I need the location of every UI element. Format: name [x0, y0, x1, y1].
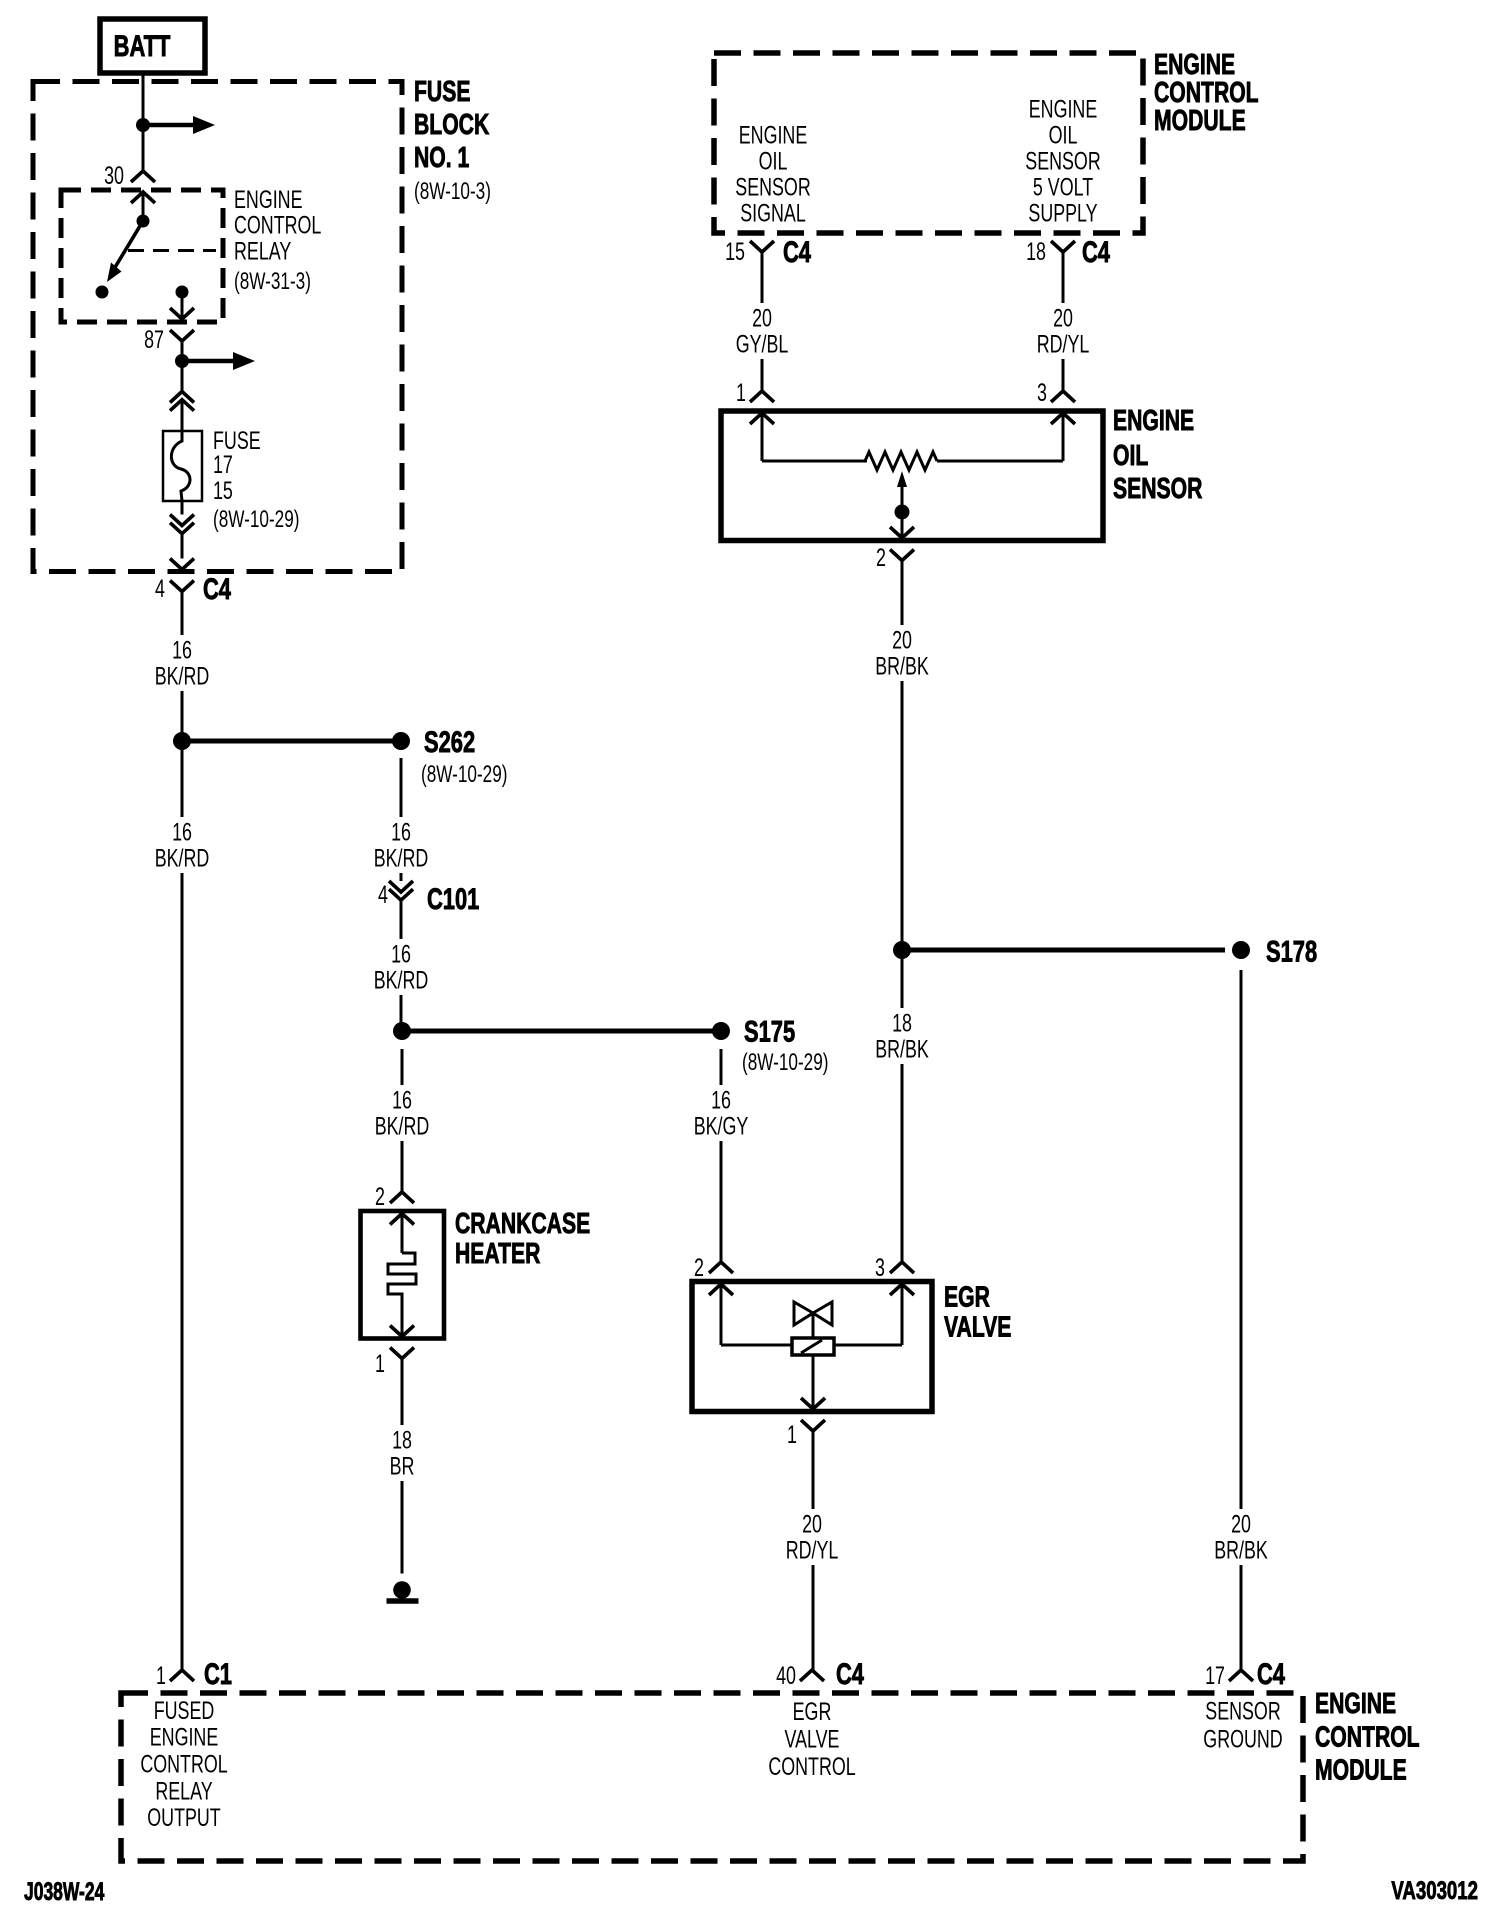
EGR valve symbol [794, 1302, 832, 1339]
svg-text:VALVE: VALVE [944, 1311, 1011, 1343]
relay contact (NC) [96, 286, 109, 299]
svg-text:BR/BK: BR/BK [1214, 1536, 1268, 1565]
svg-text:87: 87 [144, 325, 164, 354]
wire label 16 BK/RD (S262 branch) [359, 817, 443, 873]
svg-text:1: 1 [787, 1420, 797, 1449]
svg-text:4: 4 [378, 880, 388, 909]
EGR valve box [692, 1282, 932, 1412]
svg-text:S262: S262 [424, 725, 475, 759]
svg-text:SUPPLY: SUPPLY [1028, 199, 1098, 228]
pin function: EGR valve control [768, 1697, 855, 1781]
svg-text:RD/YL: RD/YL [786, 1536, 839, 1565]
svg-text:OUTPUT: OUTPUT [147, 1803, 220, 1832]
relay switch pole [137, 215, 150, 228]
svg-text:C1: C1 [204, 1657, 232, 1691]
svg-text:20: 20 [892, 626, 912, 655]
connector pin 30 [104, 161, 155, 221]
svg-text:30: 30 [104, 161, 124, 190]
wire trunk to C1 [181, 741, 184, 1670]
wire 20 RD/YL to C4 pin 40 [812, 1431, 815, 1670]
svg-text:ENGINE: ENGINE [1029, 95, 1098, 124]
svg-text:18: 18 [1026, 237, 1046, 266]
svg-text:16: 16 [711, 1086, 731, 1115]
svg-text:VALVE: VALVE [785, 1724, 840, 1753]
svg-text:15: 15 [213, 476, 233, 505]
svg-text:S175: S175 [744, 1014, 795, 1048]
wire label 16 BK/RD (trunk lower) [140, 817, 224, 873]
svg-text:EGR: EGR [944, 1281, 990, 1313]
fuse block no.1 dashed box [33, 82, 402, 572]
svg-text:17: 17 [213, 450, 233, 479]
svg-text:16: 16 [172, 818, 192, 847]
svg-text:18: 18 [392, 1426, 412, 1455]
relay contact pin 87 side [176, 286, 189, 299]
svg-text:BK/RD: BK/RD [374, 844, 429, 873]
svg-text:1: 1 [375, 1349, 385, 1378]
svg-text:C101: C101 [427, 882, 479, 916]
node: relay output junction with arrow [175, 352, 255, 370]
relay actuation dashed line [128, 249, 216, 252]
svg-text:ENGINE: ENGINE [150, 1722, 219, 1751]
connector pin 2 oil sensor [876, 543, 914, 572]
connector pin 1 EGR [787, 1420, 825, 1449]
svg-text:ENGINE: ENGINE [1113, 405, 1194, 437]
EGR solenoid [721, 1338, 902, 1409]
svg-text:(8W-10-29): (8W-10-29) [213, 506, 299, 532]
wire label 20 BR/BK (sensor out) [860, 625, 944, 681]
connector 17 C4 [1205, 1657, 1285, 1691]
svg-text:CONTROL: CONTROL [234, 210, 321, 239]
wire 20 BR/BK to S178 [901, 561, 904, 951]
relay switch arm [107, 221, 143, 282]
svg-text:SENSOR: SENSOR [1205, 1696, 1280, 1725]
connector pin 87 [144, 292, 194, 361]
svg-text:J038W-24: J038W-24 [24, 1877, 104, 1906]
svg-text:20: 20 [802, 1510, 822, 1539]
svg-text:RD/YL: RD/YL [1037, 330, 1090, 359]
wire label 20 GY/BL [720, 303, 804, 359]
svg-text:(8W-10-3): (8W-10-3) [414, 178, 491, 204]
EGR valve title [944, 1281, 1011, 1343]
svg-text:18: 18 [892, 1009, 912, 1038]
svg-text:20: 20 [752, 304, 772, 333]
svg-text:C4: C4 [783, 235, 811, 269]
svg-text:C4: C4 [1082, 235, 1110, 269]
svg-text:FUSE: FUSE [414, 76, 470, 108]
svg-text:2: 2 [876, 543, 886, 572]
engine control module dashed box (bottom) [121, 1693, 1303, 1861]
svg-text:BK/RD: BK/RD [155, 844, 210, 873]
heater element [388, 1214, 416, 1337]
svg-text:RELAY: RELAY [155, 1776, 213, 1805]
wire label 20 RD/YL (top) [1021, 303, 1105, 359]
svg-text:20: 20 [1053, 304, 1073, 333]
svg-text:4: 4 [155, 574, 165, 603]
wire label 16 BK/RD (to heater) [360, 1085, 444, 1141]
svg-text:17: 17 [1205, 1661, 1225, 1690]
relay label [234, 185, 321, 295]
svg-text:RELAY: RELAY [234, 236, 292, 265]
svg-text:GY/BL: GY/BL [736, 330, 789, 359]
inline connector double chevron (down) [170, 501, 194, 559]
connector pin 2 crankcase heater [375, 1182, 414, 1211]
svg-text:(8W-10-29): (8W-10-29) [742, 1049, 828, 1075]
connector pin 1 oil sensor [736, 378, 774, 407]
wire label 18 BR/BK (S178 to EGR) [860, 1008, 944, 1064]
wire label 16 BK/GY (to EGR) [679, 1085, 763, 1141]
splice S178 [893, 934, 1317, 968]
wire label 18 BR (to ground) [372, 1425, 432, 1481]
engine control module title (top) [1154, 49, 1259, 137]
svg-text:OIL: OIL [1049, 121, 1078, 150]
pin function: engine oil sensor signal [735, 121, 810, 228]
svg-text:SIGNAL: SIGNAL [740, 199, 806, 228]
drawing number VA303012 [1391, 1876, 1478, 1904]
wire S175 to EGR pin 2 [720, 1049, 723, 1262]
engine control module dashed box (top) [714, 53, 1143, 233]
svg-text:1: 1 [736, 378, 746, 407]
inline connector double chevron (up) [170, 361, 194, 431]
svg-text:SENSOR: SENSOR [1025, 147, 1100, 176]
wire S175 to crankcase heater [401, 1049, 404, 1192]
connector 15 C4 [725, 235, 811, 269]
wire 16 BK/RD trunk [181, 592, 184, 742]
fuse block label [414, 76, 491, 205]
svg-text:40: 40 [776, 1661, 796, 1690]
svg-text:GROUND: GROUND [1203, 1724, 1282, 1753]
svg-text:16: 16 [392, 1086, 412, 1115]
crankcase heater box [361, 1211, 445, 1339]
pin function: engine oil sensor 5 volt supply [1025, 95, 1100, 228]
svg-text:3: 3 [1037, 378, 1047, 407]
svg-text:OIL: OIL [1113, 440, 1148, 472]
svg-text:CRANKCASE: CRANKCASE [455, 1208, 590, 1240]
connector 18 C4 [1026, 235, 1110, 269]
svg-text:SENSOR: SENSOR [1113, 473, 1202, 505]
wire label 16 BK/RD (C101 to S175) [359, 939, 443, 995]
connector pin 3 oil sensor [1037, 378, 1075, 407]
svg-text:CONTROL: CONTROL [768, 1752, 855, 1781]
wire 20 RD/YL [1062, 252, 1065, 391]
connector pin 3 EGR [875, 1253, 914, 1282]
svg-text:15: 15 [725, 237, 745, 266]
svg-text:16: 16 [172, 636, 192, 665]
svg-text:2: 2 [375, 1182, 385, 1211]
pin function: fused engine control relay output [140, 1696, 227, 1832]
svg-text:MODULE: MODULE [1315, 1754, 1407, 1786]
svg-text:BK/GY: BK/GY [694, 1112, 749, 1141]
svg-text:BLOCK: BLOCK [414, 109, 490, 141]
connector pin 2 EGR [694, 1253, 733, 1282]
crankcase heater label [455, 1208, 590, 1270]
svg-text:BR/BK: BR/BK [875, 652, 929, 681]
svg-text:NO. 1: NO. 1 [414, 142, 469, 174]
svg-text:BK/RD: BK/RD [375, 1112, 430, 1141]
svg-text:ENGINE: ENGINE [234, 185, 303, 214]
svg-text:ENGINE: ENGINE [1315, 1688, 1396, 1720]
wire label 20 RD/YL (EGR out) [770, 1509, 854, 1565]
svg-text:BATT: BATT [114, 29, 171, 63]
svg-text:SENSOR: SENSOR [735, 173, 810, 202]
svg-text:5 VOLT: 5 VOLT [1033, 173, 1093, 202]
svg-text:CONTROL: CONTROL [140, 1749, 227, 1778]
engine control relay dashed box [61, 190, 223, 322]
svg-text:BR: BR [390, 1452, 415, 1481]
svg-text:BK/RD: BK/RD [155, 662, 210, 691]
svg-text:3: 3 [875, 1253, 885, 1282]
wiper arrow [890, 471, 914, 538]
svg-text:BR/BK: BR/BK [875, 1035, 929, 1064]
wire 20 BR/BK S178 to C4 pin 17 [1240, 970, 1243, 1670]
wire label 16 BK/RD (trunk upper) [140, 635, 224, 691]
oil sensor internal pins [750, 413, 1075, 461]
wire 20 GY/BL [761, 252, 764, 391]
connector C101 double chevron [378, 880, 479, 1031]
ground symbol [387, 1581, 419, 1601]
svg-text:2: 2 [694, 1253, 704, 1282]
svg-text:20: 20 [1231, 1510, 1251, 1539]
engine control module title (bottom) [1315, 1688, 1420, 1786]
splice S175 [393, 1014, 828, 1076]
svg-text:(8W-10-29): (8W-10-29) [421, 761, 507, 787]
svg-text:C4: C4 [203, 572, 231, 606]
svg-text:FUSED: FUSED [154, 1696, 215, 1725]
engine oil sensor box [721, 411, 1103, 541]
svg-text:BK/RD: BK/RD [374, 966, 429, 995]
connector 1 C1 [156, 1657, 232, 1691]
EGR internal pins [709, 1284, 914, 1345]
svg-text:C4: C4 [836, 1657, 864, 1691]
svg-text:HEATER: HEATER [455, 1238, 540, 1270]
wire label 20 BR/BK (S178 to C4 17) [1199, 1509, 1283, 1565]
svg-text:CONTROL: CONTROL [1315, 1721, 1420, 1753]
resistor element [762, 452, 1063, 470]
connector pin 1 crankcase heater [375, 1348, 414, 1378]
connector 40 C4 [776, 1657, 864, 1691]
svg-text:OIL: OIL [759, 147, 788, 176]
svg-text:EGR: EGR [793, 1697, 832, 1726]
node: fused B+ junction with arrow [136, 116, 215, 134]
svg-text:(8W-31-3): (8W-31-3) [234, 268, 311, 294]
fuse 17 (15A) [163, 426, 299, 533]
engine oil sensor title [1113, 405, 1202, 505]
svg-text:1: 1 [156, 1661, 166, 1690]
splice S262 [182, 725, 507, 788]
wire 18 BR to ground [401, 1359, 404, 1574]
wire 18 BR/BK S178 to EGR pin 3 [901, 950, 904, 1262]
pin function: sensor ground [1203, 1696, 1282, 1753]
svg-text:16: 16 [391, 818, 411, 847]
svg-text:16: 16 [391, 940, 411, 969]
wire S262 to C101 [400, 758, 403, 881]
connector 4 C4 at fuse block exit [155, 559, 231, 606]
battery feed box BATT [100, 19, 205, 73]
wire BATT to relay pin 30 [142, 73, 145, 171]
svg-text:VA303012: VA303012 [1391, 1876, 1478, 1904]
sheet number J038W-24 [24, 1877, 104, 1906]
svg-text:MODULE: MODULE [1154, 105, 1246, 137]
node S262 left junction [173, 732, 191, 750]
svg-text:C4: C4 [1257, 1657, 1285, 1691]
svg-text:ENGINE: ENGINE [739, 121, 808, 150]
svg-text:S178: S178 [1266, 934, 1317, 968]
